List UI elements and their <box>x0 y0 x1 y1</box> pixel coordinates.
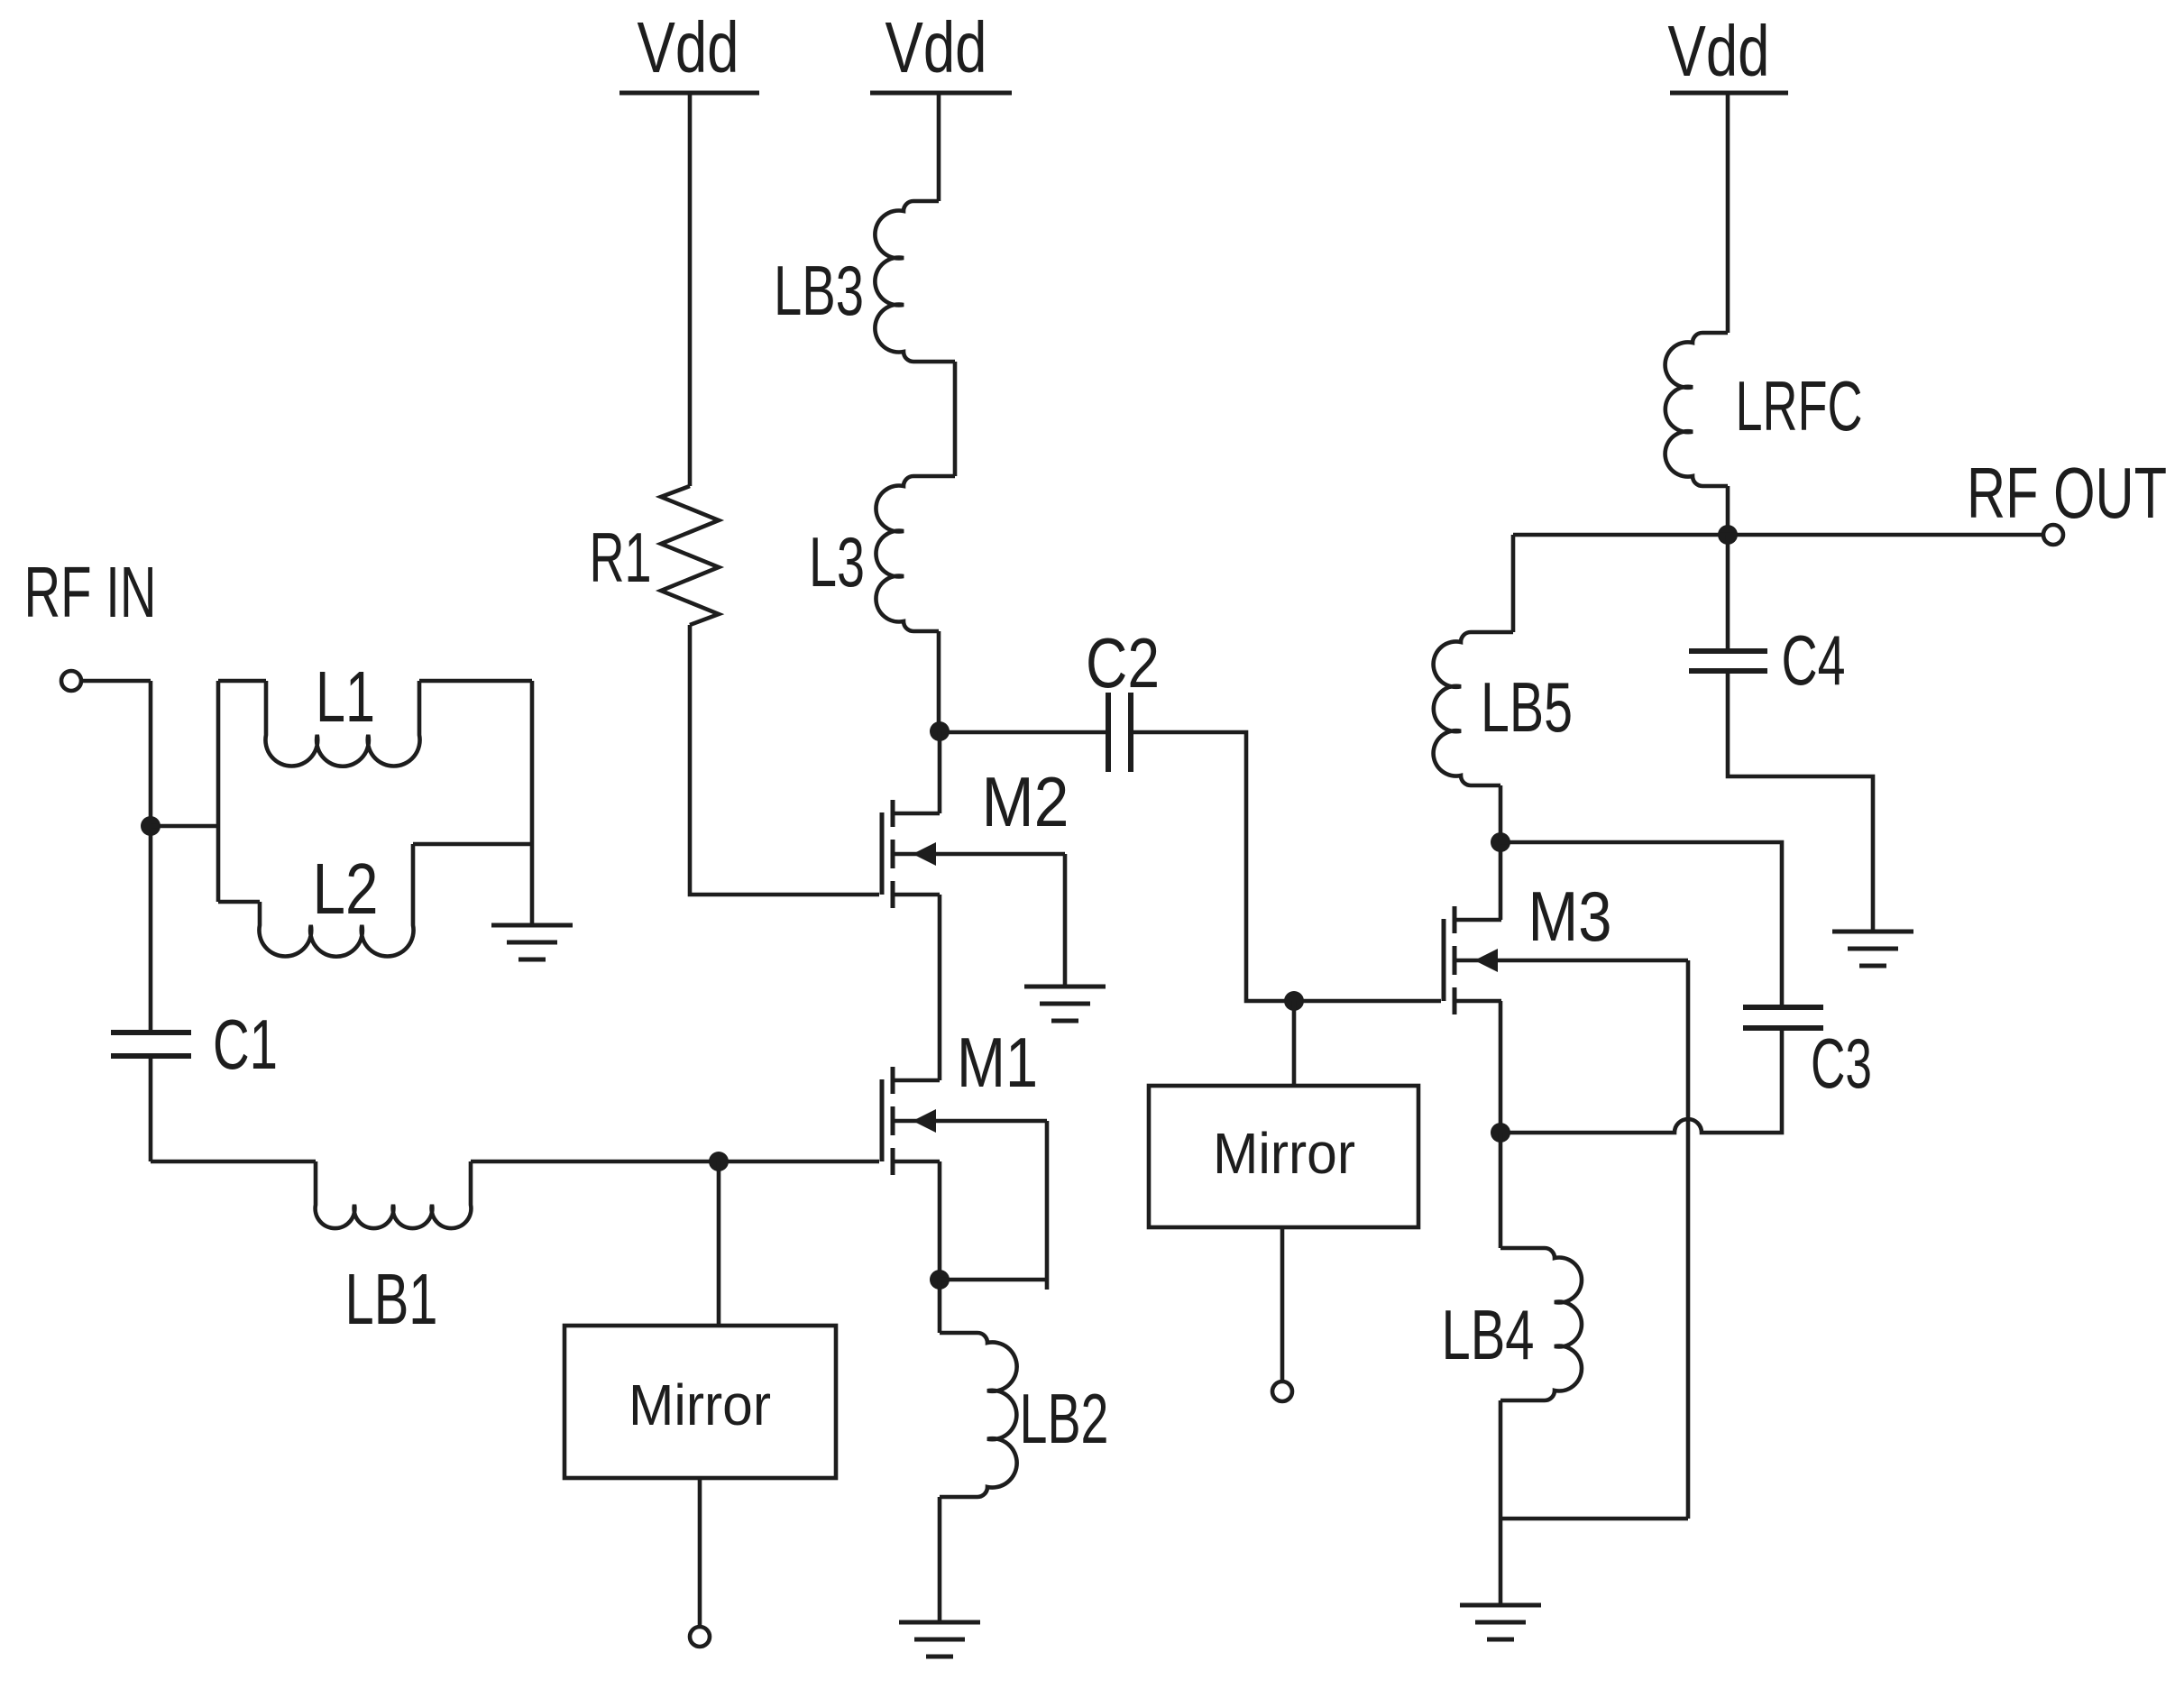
wire LB4 to ground <box>1499 1400 1503 1605</box>
transistor M3 gate bar <box>1442 919 1446 1001</box>
label LB3 <box>774 251 864 330</box>
wire output line <box>1513 533 2043 537</box>
wire Mirror1 to terminal <box>698 1478 702 1627</box>
power Vdd rail 2 (above LB3) <box>870 7 1012 93</box>
inductor LB1 <box>316 1161 472 1228</box>
wire node to C3 top <box>1500 842 1782 1007</box>
label C2 <box>1086 623 1160 702</box>
wire C1 down <box>149 1056 153 1161</box>
wire C1 to LB1 <box>151 1160 316 1164</box>
svg-text:C2: C2 <box>1086 623 1160 702</box>
wire C2 to M3 gate node <box>1131 732 1441 1001</box>
wire right bus <box>530 681 535 925</box>
wire node to L1/L2 branch <box>151 824 218 829</box>
svg-text:L3: L3 <box>809 522 865 601</box>
ground (LB2) <box>899 1622 980 1657</box>
wire Vdd1 to R1 top <box>688 93 693 486</box>
power Vdd rail 3 (above LRFC) <box>1668 11 1789 93</box>
node M2-drain <box>930 721 950 741</box>
wire M3 drain up <box>1499 842 1503 920</box>
node input <box>141 816 161 836</box>
capacitor C2 <box>1108 693 1131 772</box>
transistor M3 source lead <box>1454 999 1501 1004</box>
label R1 <box>590 518 652 597</box>
transistor M1 drain lead <box>893 1079 940 1083</box>
wire LB5 to node <box>1499 785 1503 842</box>
ground (LB4) <box>1460 1605 1541 1639</box>
transistor M3 body arrow <box>1474 949 1498 972</box>
node RF OUT <box>1718 525 1738 545</box>
svg-text:LB2: LB2 <box>1020 1379 1109 1458</box>
wire L1 to right bus <box>419 679 532 684</box>
label LB2 <box>1020 1379 1109 1458</box>
mirror box 1 <box>564 1326 836 1478</box>
node M1-source <box>930 1270 950 1290</box>
svg-text:Vdd: Vdd <box>638 7 739 87</box>
inductor LB5 <box>1434 632 1513 785</box>
label LB1 <box>345 1259 438 1339</box>
wire L2 to right bus <box>413 842 532 847</box>
terminal Mirror1 <box>690 1627 710 1647</box>
capacitor C1 <box>111 1033 191 1056</box>
svg-text:Vdd: Vdd <box>886 7 987 87</box>
transistor M3 drain lead <box>1454 918 1501 923</box>
svg-text:LRFC: LRFC <box>1736 366 1863 445</box>
wire M3 body return <box>1501 1517 1688 1521</box>
wire node to LB2 <box>938 1280 942 1333</box>
transistor M2 channel <box>891 800 895 908</box>
svg-text:LB3: LB3 <box>774 251 864 330</box>
svg-text:M1: M1 <box>957 1023 1038 1102</box>
mirror box 2 <box>1149 1086 1418 1227</box>
wire L3 to drain node <box>937 631 941 731</box>
wire R1 bottom to M2 gate <box>690 625 879 895</box>
transistor M3 channel <box>1453 906 1457 1014</box>
ground (M2 bias) <box>1024 987 1106 1021</box>
wire M2 source to M1 drain <box>938 895 942 1080</box>
transistor M2 gate bar <box>880 812 885 895</box>
wire C3 bottom to M3 source node (with hop) <box>1500 1028 1782 1133</box>
label C1 <box>213 1005 278 1084</box>
svg-text:LB1: LB1 <box>345 1259 438 1339</box>
svg-text:RF IN: RF IN <box>24 552 157 632</box>
wire node to LB4 <box>1499 1133 1503 1248</box>
transistor M1 source lead <box>893 1160 940 1164</box>
wire M1 source down <box>938 1161 942 1280</box>
wire C4 to ground <box>1728 671 1873 932</box>
wire Mirror2 to terminal <box>1280 1227 1285 1381</box>
transistor M1 body lead <box>893 1119 1047 1124</box>
inductor L3 <box>876 476 955 631</box>
transistor M2 body lead <box>893 852 1065 857</box>
wire M1 source node to body <box>940 1278 1047 1282</box>
terminal RF IN <box>61 671 81 691</box>
transistor M1 channel <box>891 1067 895 1175</box>
node M3 gate <box>1284 991 1304 1011</box>
svg-text:R1: R1 <box>590 518 652 597</box>
capacitor C4 <box>1689 651 1767 671</box>
wire M3 body down <box>1686 960 1691 1519</box>
label LB4 <box>1442 1295 1535 1374</box>
transistor M1 label <box>957 1023 1038 1102</box>
wire node to C2 <box>940 730 1108 735</box>
wire LB2 to ground <box>938 1497 942 1622</box>
svg-text:LB5: LB5 <box>1481 667 1573 747</box>
power Vdd rail 1 (above R1) <box>619 7 759 93</box>
node M3 drain / LB5 <box>1491 832 1510 852</box>
label LB5 <box>1481 667 1573 747</box>
svg-text:C3: C3 <box>1811 1023 1872 1103</box>
label C3 <box>1811 1023 1872 1103</box>
label C4 <box>1782 620 1846 700</box>
svg-text:L1: L1 <box>316 656 375 737</box>
wire node to Mirror1 <box>717 1161 721 1326</box>
transistor M3 body lead <box>1454 959 1688 963</box>
wire M1 body down <box>1045 1121 1050 1290</box>
svg-text:Mirror: Mirror <box>629 1372 771 1437</box>
node M3 source <box>1491 1123 1510 1143</box>
wire M3 source down <box>1499 1001 1503 1133</box>
wire Vdd2 to LB3 <box>937 93 941 201</box>
label LRFC <box>1736 366 1863 445</box>
wire LB1 to M1 gate <box>471 1160 879 1164</box>
transistor M1 gate bar <box>880 1079 885 1161</box>
label Mirror 1 <box>629 1372 771 1437</box>
svg-text:M3: M3 <box>1528 877 1612 956</box>
wire LB5 branch top <box>1511 535 1516 632</box>
wire to L2 <box>218 900 260 904</box>
ground (C4) <box>1832 932 1913 966</box>
svg-text:L2: L2 <box>313 849 379 929</box>
wire input vertical <box>149 681 153 1033</box>
svg-text:C4: C4 <box>1782 620 1846 700</box>
wire M2 bias to ground <box>1063 854 1068 987</box>
label L3 <box>809 522 865 601</box>
wire branch vertical <box>216 681 221 902</box>
transistor M2 body arrow <box>913 842 936 866</box>
label Mirror 2 <box>1213 1121 1355 1186</box>
transistor M3 label <box>1528 877 1612 956</box>
wire LRFC to RF OUT node <box>1726 486 1730 535</box>
wire node to C4 <box>1726 535 1730 651</box>
transistor M2 label <box>982 762 1069 841</box>
capacitor C3 <box>1743 1007 1823 1028</box>
node gate/mirror <box>709 1152 729 1171</box>
svg-text:RF OUT: RF OUT <box>1967 453 2167 533</box>
inductor LB4 <box>1500 1248 1582 1400</box>
transistor M2 source lead <box>893 893 940 897</box>
transistor M1 body arrow <box>913 1109 936 1133</box>
wire gate node to Mirror2 <box>1292 1001 1297 1086</box>
svg-text:C1: C1 <box>213 1005 278 1084</box>
svg-text:Mirror: Mirror <box>1213 1121 1355 1186</box>
label RF OUT <box>1967 453 2167 533</box>
inductor L1 <box>265 681 419 766</box>
label L2 <box>313 849 379 929</box>
wire Vdd3 to LRFC <box>1726 93 1730 333</box>
transistor M2 drain lead <box>893 812 940 816</box>
terminal Mirror2 <box>1272 1381 1292 1401</box>
svg-text:Vdd: Vdd <box>1668 11 1770 91</box>
wire LB3 to L3 <box>953 362 958 476</box>
inductor LB2 <box>940 1333 1017 1497</box>
inductor LRFC <box>1666 333 1728 486</box>
wire M2 drain up <box>938 731 942 813</box>
inductor L2 <box>259 844 413 957</box>
inductor LB3 <box>875 201 955 362</box>
wire RF IN <box>81 679 151 684</box>
resistor R1 <box>661 486 719 625</box>
wire to L1 <box>218 679 266 684</box>
svg-text:LB4: LB4 <box>1442 1295 1535 1374</box>
terminal RF OUT <box>2043 525 2063 545</box>
svg-text:M2: M2 <box>982 762 1069 841</box>
label RF IN <box>24 552 157 632</box>
label L1 <box>316 656 375 737</box>
ground (L1/L2) <box>491 925 573 959</box>
